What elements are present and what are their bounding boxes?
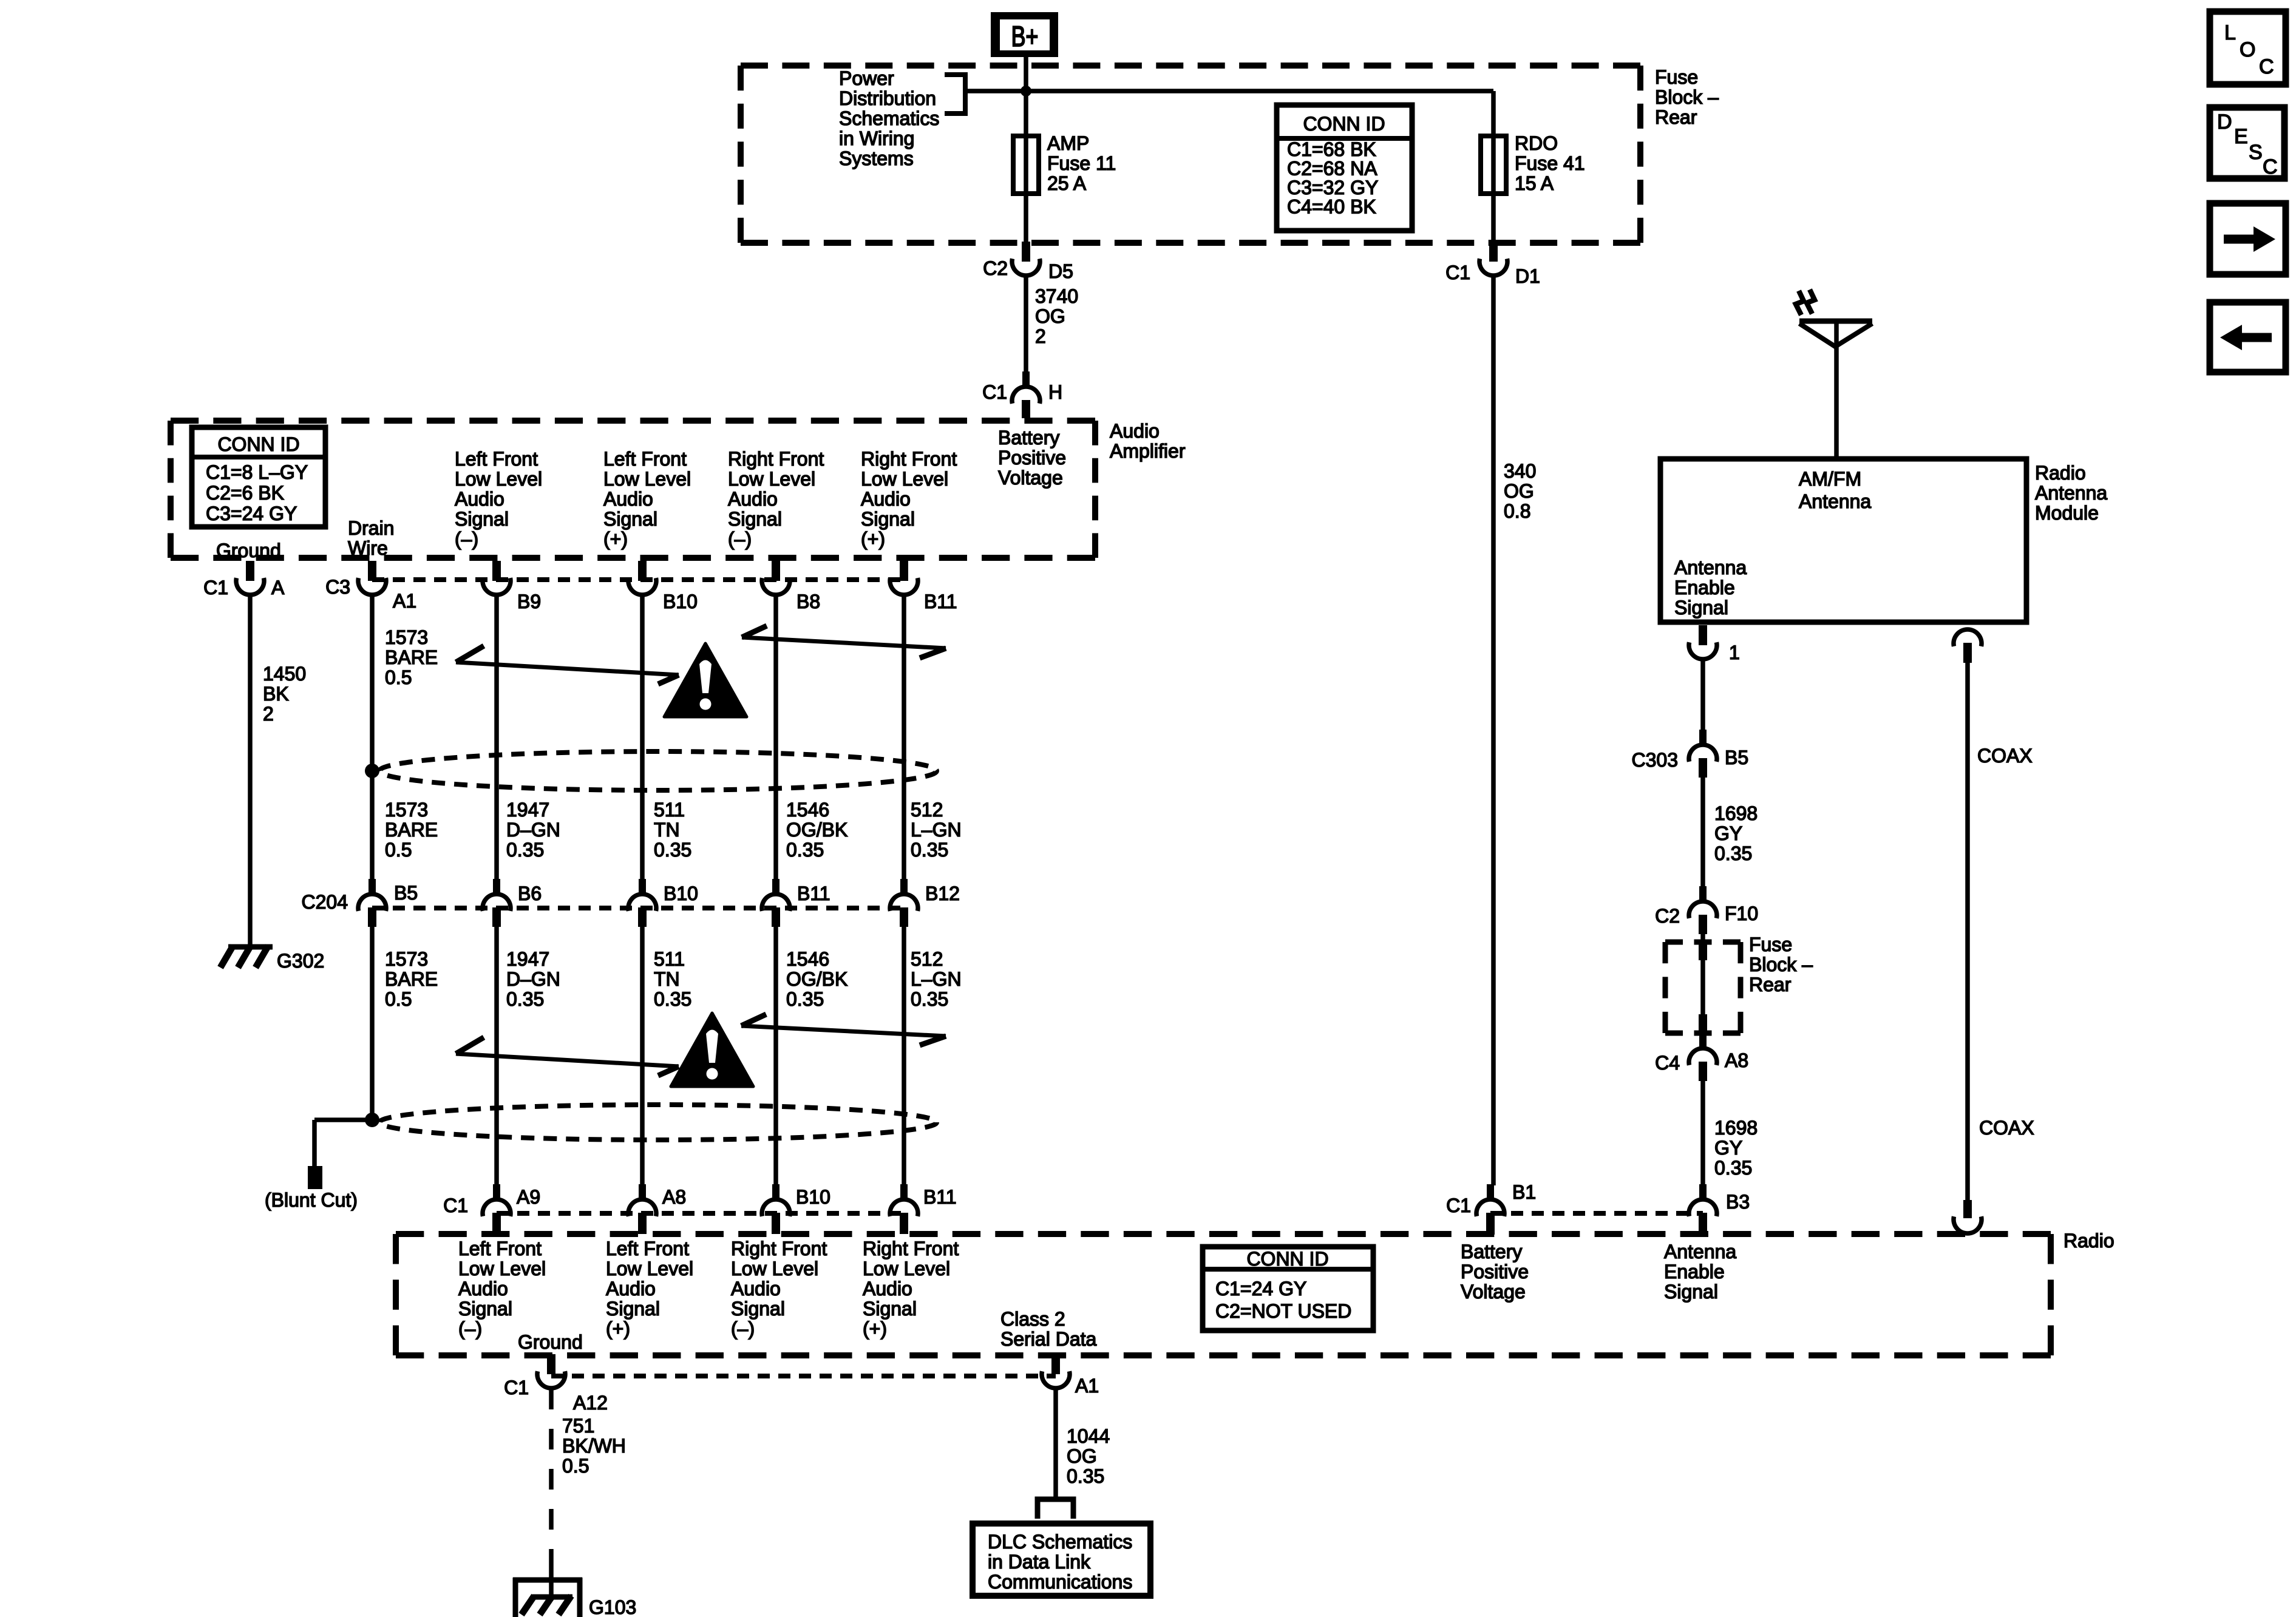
svg-text:1044: 1044 <box>1067 1425 1110 1447</box>
label B9 <box>517 591 541 612</box>
svg-text:Rear: Rear <box>1655 106 1697 128</box>
svg-text:C1: C1 <box>1445 262 1470 283</box>
svg-text:512: 512 <box>911 799 943 821</box>
svg-text:0.5: 0.5 <box>562 1455 589 1477</box>
svg-text:Module: Module <box>2035 502 2099 524</box>
svg-text:Audio: Audio <box>863 1278 912 1300</box>
svg-text:1947: 1947 <box>506 799 549 821</box>
label wire 511 TN 0.35 (mid) <box>654 799 691 861</box>
svg-text:BK/WH: BK/WH <box>562 1435 626 1457</box>
svg-text:C1=24 GY: C1=24 GY <box>1215 1278 1306 1300</box>
twist arrow lower left <box>456 1037 679 1076</box>
svg-text:C1: C1 <box>203 577 228 598</box>
wire through small fuse block <box>1699 934 1707 1034</box>
label C1 (radio left) <box>443 1195 468 1216</box>
connector 1 (antenna module) <box>1689 625 1717 659</box>
svg-text:Battery: Battery <box>1461 1241 1522 1263</box>
svg-text:1546: 1546 <box>786 799 829 821</box>
svg-text:Serial Data: Serial Data <box>1000 1328 1097 1350</box>
svg-text:B11: B11 <box>924 591 957 612</box>
radio dashed box <box>396 1234 2051 1355</box>
label B3 <box>1726 1191 1750 1213</box>
svg-text:GY: GY <box>1714 822 1742 844</box>
label RDO Fuse 41 15 A <box>1515 132 1585 194</box>
svg-text:C4=40 BK: C4=40 BK <box>1287 196 1376 218</box>
label 1 <box>1729 642 1740 663</box>
svg-text:1573: 1573 <box>385 799 428 821</box>
svg-text:G302: G302 <box>277 950 324 972</box>
svg-text:Antenna: Antenna <box>2035 482 2107 504</box>
label AM/FM Antenna <box>1799 468 1871 512</box>
svg-text:L–GN: L–GN <box>911 968 962 990</box>
label B10 (radio) <box>796 1186 830 1208</box>
svg-text:Low Level: Low Level <box>603 468 691 490</box>
svg-text:OG: OG <box>1035 305 1065 327</box>
svg-text:(Blunt Cut): (Blunt Cut) <box>265 1189 358 1211</box>
svg-text:B+: B+ <box>1011 20 1039 52</box>
node junction drain at upper ellipse <box>365 764 379 778</box>
label Radio <box>2063 1230 2114 1252</box>
svg-text:Signal: Signal <box>1664 1281 1718 1303</box>
label F10 <box>1725 903 1758 924</box>
wire 1698 GY from A8 to B3 <box>1700 1081 1705 1185</box>
label Power Distribution Schematics in Wiring Systems <box>839 67 939 169</box>
svg-text:G103: G103 <box>589 1596 636 1617</box>
svg-text:Audio: Audio <box>603 488 653 510</box>
svg-text:L: L <box>2224 21 2236 44</box>
svg-text:0.35: 0.35 <box>654 988 691 1010</box>
svg-text:DLC Schematics: DLC Schematics <box>988 1531 1132 1553</box>
fuse block rear dashed box (top) <box>741 66 1640 243</box>
wire drain C204 to blunt-cut junction <box>370 927 375 1120</box>
twist arrow upper right <box>742 626 946 658</box>
svg-text:Signal: Signal <box>861 508 915 530</box>
label Right Front Low Level Audio Signal plus (radio) <box>863 1238 959 1340</box>
svg-text:(–): (–) <box>458 1318 482 1340</box>
connector C1 D1 <box>1479 242 1507 276</box>
table CONN ID (fuse block) <box>1277 105 1412 231</box>
svg-text:Fuse: Fuse <box>1655 66 1698 88</box>
svg-text:0.35: 0.35 <box>506 839 544 861</box>
label wire 1698 GY 0.35 (upper) <box>1714 802 1758 864</box>
svg-text:C1: C1 <box>443 1195 468 1216</box>
svg-text:C4: C4 <box>1655 1052 1680 1074</box>
label wire 1044 OG 0.35 <box>1067 1425 1110 1487</box>
label C1 (fuse block radio feed) <box>1445 262 1470 283</box>
svg-text:Left Front: Left Front <box>458 1238 542 1259</box>
label wire 512 L-GN 0.35 (lower) <box>911 948 962 1010</box>
svg-text:(–): (–) <box>728 528 752 550</box>
connector B9 <box>483 561 511 595</box>
label Class 2 Serial Data <box>1000 1308 1097 1350</box>
svg-text:0.35: 0.35 <box>506 988 544 1010</box>
svg-text:OG: OG <box>1504 480 1534 502</box>
svg-text:CONN ID: CONN ID <box>1303 113 1385 135</box>
svg-text:Positive: Positive <box>1461 1261 1529 1283</box>
warning triangle (lower) <box>671 1013 753 1086</box>
connector B12 (C204) <box>890 879 918 927</box>
svg-text:BK: BK <box>263 683 289 705</box>
svg-text:B9: B9 <box>517 591 541 612</box>
svg-text:1573: 1573 <box>385 948 428 970</box>
svg-text:BARE: BARE <box>385 968 438 990</box>
AM/FM antenna module box <box>1660 459 2026 622</box>
label Drain Wire <box>348 517 394 559</box>
svg-text:COAX: COAX <box>1977 745 2033 767</box>
svg-text:B5: B5 <box>1725 747 1748 768</box>
svg-text:C1=8 L–GY: C1=8 L–GY <box>206 461 308 483</box>
label wire 1573 BARE 0.5 (mid) <box>385 799 438 861</box>
wire 340 OG from D1 to B1 <box>1491 276 1496 1185</box>
svg-text:GY: GY <box>1714 1137 1742 1159</box>
label B6 <box>518 883 542 904</box>
table CONN ID (radio) <box>1203 1247 1373 1331</box>
twisted pair ellipse (upper) <box>379 751 937 790</box>
label B11 (C204) <box>797 883 830 904</box>
label A1 (radio) <box>1075 1375 1099 1397</box>
svg-text:Drain: Drain <box>348 517 394 539</box>
svg-text:Distribution: Distribution <box>839 87 936 109</box>
svg-text:C2=6 BK: C2=6 BK <box>206 482 284 504</box>
label wire 1573 BARE 0.5 (lower) <box>385 948 438 1010</box>
svg-text:A8: A8 <box>1725 1049 1748 1071</box>
svg-text:C303: C303 <box>1632 749 1679 771</box>
svg-text:0.35: 0.35 <box>786 988 824 1010</box>
wire 1450 BK from C1 A to G302 <box>248 595 253 946</box>
ground G103 frame <box>513 1578 582 1617</box>
twist arrow lower right <box>741 1014 946 1045</box>
svg-text:C1: C1 <box>982 381 1007 403</box>
svg-text:Fuse: Fuse <box>1749 934 1792 955</box>
label wire 1546 OG/BK 0.35 (lower) <box>786 948 847 1010</box>
blunt cut terminal <box>308 1166 322 1189</box>
harness dashed line (C204 row) <box>372 906 904 910</box>
svg-text:Power: Power <box>839 67 894 89</box>
svg-text:Low Level: Low Level <box>458 1258 546 1280</box>
wire RDO fuse to connector D1 <box>1491 194 1496 242</box>
svg-text:Ground: Ground <box>216 540 281 561</box>
svg-text:A: A <box>271 577 285 598</box>
svg-text:B3: B3 <box>1726 1191 1750 1213</box>
ground G302 <box>220 946 273 968</box>
svg-text:A1: A1 <box>393 590 416 612</box>
label B12 <box>925 883 960 904</box>
svg-text:Enable: Enable <box>1664 1261 1725 1283</box>
wire B10 to radio A8 <box>640 927 645 1185</box>
label Antenna Enable Signal (radio) <box>1664 1241 1736 1303</box>
label B11 (radio) <box>923 1186 957 1208</box>
svg-text:B10: B10 <box>796 1186 830 1208</box>
svg-text:0.35: 0.35 <box>1714 842 1752 864</box>
connector B11 (C204) <box>762 879 790 927</box>
label C2 (F10) <box>1655 905 1680 927</box>
svg-text:Left Front: Left Front <box>606 1238 689 1259</box>
svg-text:(–): (–) <box>455 528 478 550</box>
svg-text:0.35: 0.35 <box>1067 1465 1104 1487</box>
svg-text:TN: TN <box>654 968 680 990</box>
connector B10 (radio) <box>762 1184 790 1234</box>
svg-text:Right Front: Right Front <box>731 1238 827 1259</box>
antenna RF waves marks <box>1796 290 1815 315</box>
label Left Front Low Level Audio Signal minus (amplifier) <box>455 448 542 550</box>
connector B11 (radio) <box>890 1184 918 1234</box>
svg-text:Positive: Positive <box>998 447 1066 469</box>
label wire 512 L-GN 0.35 (mid) <box>911 799 962 861</box>
svg-text:B8: B8 <box>796 591 820 612</box>
svg-text:Antenna: Antenna <box>1674 557 1747 578</box>
connector C1 A9 (radio) <box>483 1184 511 1234</box>
connector C2 F10 <box>1689 886 1717 934</box>
svg-text:Signal: Signal <box>728 508 782 530</box>
node junction at B+ feed <box>1021 86 1031 97</box>
svg-text:0.5: 0.5 <box>385 839 412 861</box>
connector C2 D5 <box>1012 242 1040 276</box>
svg-text:(+): (+) <box>606 1318 630 1340</box>
svg-text:A1: A1 <box>1075 1375 1099 1397</box>
label COAX (lower) <box>1979 1117 2034 1139</box>
label AMP Fuse 11 25 A <box>1047 132 1116 194</box>
svg-text:Antenna: Antenna <box>1664 1241 1736 1263</box>
svg-text:RDO: RDO <box>1515 132 1558 154</box>
svg-text:(+): (+) <box>603 528 628 550</box>
svg-text:Audio: Audio <box>728 488 778 510</box>
connector C1 B1 (radio battery) <box>1476 1184 1504 1235</box>
wire B10 amplifier to C204 B10 <box>640 595 645 880</box>
svg-text:CONN ID: CONN ID <box>1246 1248 1328 1270</box>
svg-text:B11: B11 <box>923 1186 957 1208</box>
coax connector at radio <box>1954 1200 1982 1233</box>
svg-text:Audio: Audio <box>861 488 911 510</box>
antenna symbol <box>1799 321 1872 459</box>
label wire 1546 OG/BK 0.35 (mid) <box>786 799 847 861</box>
svg-text:B11: B11 <box>797 883 830 904</box>
label B1 <box>1512 1181 1536 1203</box>
svg-text:Schematics: Schematics <box>839 107 939 129</box>
svg-text:0.35: 0.35 <box>786 839 824 861</box>
svg-text:O: O <box>2240 38 2255 61</box>
label Ground (radio) <box>518 1331 583 1353</box>
label B11 (amplifier) <box>924 591 957 612</box>
connector B6 (C204) <box>483 879 511 927</box>
label C1 (amplifier battery feed) <box>982 381 1007 403</box>
icon box arrow left <box>2210 302 2286 372</box>
svg-text:OG/BK: OG/BK <box>786 968 847 990</box>
svg-text:B6: B6 <box>518 883 542 904</box>
label wire 511 TN 0.35 (lower) <box>654 948 691 1010</box>
connector C204 B5 <box>358 879 386 927</box>
svg-text:Low Level: Low Level <box>728 468 815 490</box>
svg-text:Enable: Enable <box>1674 577 1735 598</box>
label A <box>271 577 285 598</box>
svg-text:L–GN: L–GN <box>911 819 962 841</box>
label wire 751 BK/WH 0.5 <box>562 1415 626 1477</box>
label A8 (fuse block) <box>1725 1049 1748 1071</box>
svg-text:C: C <box>2263 155 2278 178</box>
icon box LOC <box>2210 12 2286 84</box>
svg-text:0.35: 0.35 <box>1714 1157 1752 1179</box>
label Right Front Low Level Audio Signal minus (amplifier) <box>728 448 824 550</box>
label Right Front Low Level Audio Signal minus (radio) <box>731 1238 827 1340</box>
label Radio Antenna Module <box>2035 462 2107 524</box>
svg-text:2: 2 <box>263 703 274 725</box>
wire drain to blunt cut <box>314 1120 372 1167</box>
icon box DESC <box>2210 107 2284 178</box>
svg-text:Signal: Signal <box>731 1298 785 1320</box>
label G103 <box>589 1596 636 1617</box>
svg-text:Fuse 11: Fuse 11 <box>1047 152 1116 174</box>
label (Blunt Cut) <box>265 1189 358 1211</box>
svg-text:AMP: AMP <box>1047 132 1089 154</box>
svg-text:Low Level: Low Level <box>863 1258 950 1280</box>
label C1 (amp ground) <box>203 577 228 598</box>
connector B11 (amplifier) <box>890 561 918 595</box>
svg-text:Low Level: Low Level <box>861 468 948 490</box>
svg-text:OG/BK: OG/BK <box>786 819 847 841</box>
fuse block rear dashed box (small) <box>1665 942 1741 1033</box>
svg-text:15 A: 15 A <box>1515 172 1554 194</box>
svg-text:Audio: Audio <box>458 1278 508 1300</box>
svg-text:D–GN: D–GN <box>506 819 560 841</box>
svg-text:0.5: 0.5 <box>385 988 412 1010</box>
svg-text:511: 511 <box>654 799 685 821</box>
svg-text:B12: B12 <box>925 883 960 904</box>
svg-text:B1: B1 <box>1512 1181 1536 1203</box>
svg-text:(+): (+) <box>861 528 885 550</box>
coax connector at antenna module <box>1954 629 1982 663</box>
connector C1 A (amplifier ground) <box>236 561 264 595</box>
svg-text:Audio: Audio <box>731 1278 781 1300</box>
svg-text:A8: A8 <box>662 1186 686 1208</box>
svg-text:A9: A9 <box>517 1186 540 1208</box>
svg-text:C204: C204 <box>302 891 348 913</box>
svg-text:3740: 3740 <box>1035 285 1078 307</box>
svg-text:A12: A12 <box>573 1392 608 1414</box>
icon box arrow right <box>2210 203 2286 274</box>
wire B12 to radio B11 <box>902 927 906 1185</box>
audio amplifier dashed box <box>171 421 1095 558</box>
svg-text:C: C <box>2259 55 2274 78</box>
svg-text:Rear: Rear <box>1749 974 1792 995</box>
label B10 (C204) <box>664 883 698 904</box>
connector C4 A8 <box>1689 1033 1717 1081</box>
svg-text:2: 2 <box>1035 325 1046 347</box>
fuse RDO Fuse 41 15A <box>1481 136 1506 194</box>
svg-text:D5: D5 <box>1048 260 1073 282</box>
svg-text:Radio: Radio <box>2063 1230 2114 1252</box>
svg-text:(+): (+) <box>863 1318 887 1340</box>
svg-text:0.8: 0.8 <box>1504 500 1530 522</box>
table CONN ID (audio amplifier) <box>192 427 325 527</box>
connector B10 (amplifier) <box>628 561 656 595</box>
label C1 (radio battery) <box>1446 1195 1471 1216</box>
wire B11 to radio B10 <box>773 927 778 1185</box>
svg-text:Right Front: Right Front <box>863 1238 959 1259</box>
svg-text:(–): (–) <box>731 1318 755 1340</box>
wire drain junction to C204 <box>370 771 375 880</box>
svg-text:Audio: Audio <box>606 1278 656 1300</box>
svg-text:C3: C3 <box>325 576 350 598</box>
twisted pair ellipse (lower) <box>379 1105 937 1140</box>
label Battery Positive Voltage (radio) <box>1461 1241 1529 1303</box>
DLC pointer bracket <box>1038 1499 1073 1519</box>
svg-text:Audio: Audio <box>455 488 504 510</box>
label C3 <box>325 576 350 598</box>
label wire 1947 D-GN 0.35 (mid) <box>506 799 560 861</box>
label C303 <box>1632 749 1679 771</box>
label C4 <box>1655 1052 1680 1074</box>
svg-text:340: 340 <box>1504 460 1536 482</box>
coax wire antenna module to radio <box>1965 663 1970 1201</box>
svg-text:Ground: Ground <box>518 1331 583 1353</box>
wire AMP fuse to connector D5 <box>1024 194 1028 242</box>
connector B8 <box>762 561 790 595</box>
svg-text:Left Front: Left Front <box>603 448 687 470</box>
svg-text:Low Level: Low Level <box>606 1258 693 1280</box>
label wire 1450 BK 2 <box>263 663 306 725</box>
label A8 (radio) <box>662 1186 686 1208</box>
connector C303 B5 <box>1689 730 1717 778</box>
svg-text:0.5: 0.5 <box>385 666 412 688</box>
connector C1 H <box>1012 371 1040 418</box>
svg-text:Block –: Block – <box>1655 86 1719 108</box>
label Antenna Enable Signal (module) <box>1674 557 1747 619</box>
svg-text:Communications: Communications <box>988 1571 1132 1593</box>
svg-text:B10: B10 <box>664 883 698 904</box>
svg-text:B10: B10 <box>663 591 698 612</box>
svg-text:C3=24 GY: C3=24 GY <box>206 503 297 524</box>
label Right Front Low Level Audio Signal plus (amplifier) <box>861 448 957 550</box>
svg-text:Antenna: Antenna <box>1799 490 1871 512</box>
svg-text:AM/FM: AM/FM <box>1799 468 1861 490</box>
harness dashed line (radio input row) <box>497 1211 904 1216</box>
svg-text:D1: D1 <box>1515 265 1540 287</box>
svg-text:Signal: Signal <box>455 508 509 530</box>
wire 1044 OG to DLC <box>1053 1389 1058 1497</box>
wire from B+ down to AMP fuse <box>1024 56 1028 137</box>
svg-text:Signal: Signal <box>1674 597 1728 619</box>
svg-text:Radio: Radio <box>2035 462 2086 484</box>
wire B9 amplifier to C204 B6 <box>494 595 499 880</box>
label A12 <box>573 1392 608 1414</box>
svg-text:Low Level: Low Level <box>455 468 542 490</box>
svg-text:COAX: COAX <box>1979 1117 2034 1139</box>
svg-text:1: 1 <box>1729 642 1740 663</box>
svg-text:0.35: 0.35 <box>911 839 948 861</box>
connector B10 (C204) <box>628 879 656 927</box>
harness dashed line B1 to B3 <box>1490 1211 1703 1216</box>
wire B6 to radio A9 <box>494 927 499 1185</box>
label wire 1698 GY 0.35 (lower) <box>1714 1117 1758 1179</box>
svg-text:C1: C1 <box>1446 1195 1471 1216</box>
harness dashed line A12 to A1 <box>551 1374 1056 1378</box>
wire 751 BK/WH dashed to G103 <box>549 1389 554 1596</box>
label Left Front Low Level Audio Signal plus (amplifier) <box>603 448 691 550</box>
label Ground (amplifier) <box>216 540 281 561</box>
svg-text:1546: 1546 <box>786 948 829 970</box>
svg-text:Class 2: Class 2 <box>1000 1308 1065 1330</box>
svg-text:1947: 1947 <box>506 948 549 970</box>
svg-text:Battery: Battery <box>998 427 1059 449</box>
label H <box>1048 381 1062 403</box>
node junction drain at lower ellipse <box>365 1113 379 1127</box>
connector C1 A12 (radio ground) <box>537 1354 565 1388</box>
svg-text:BARE: BARE <box>385 819 438 841</box>
svg-text:Audio: Audio <box>1110 420 1160 442</box>
svg-text:TN: TN <box>654 819 680 841</box>
svg-text:Wire: Wire <box>348 537 388 559</box>
label COAX (upper) <box>1977 745 2033 767</box>
label A1 (amplifier) <box>393 590 416 612</box>
